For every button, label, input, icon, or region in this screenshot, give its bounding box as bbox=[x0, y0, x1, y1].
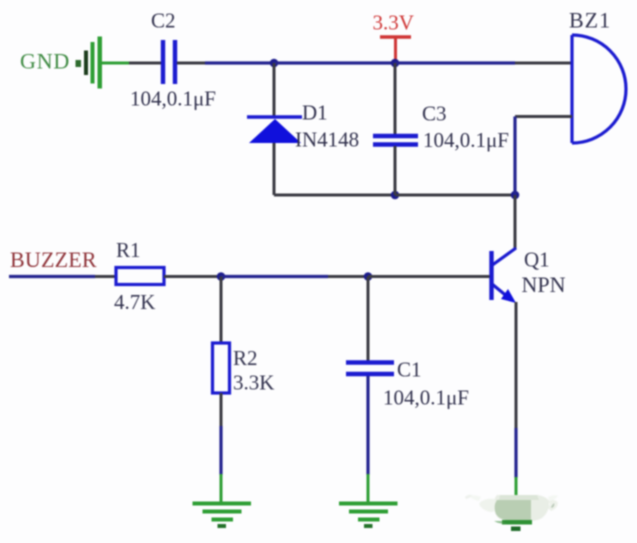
buzzer BZ1 bbox=[572, 35, 626, 143]
svg-text:C3: C3 bbox=[422, 102, 447, 126]
svg-text:104,0.1μF: 104,0.1μF bbox=[130, 87, 216, 111]
wire: bottom rail C3 to collector branch bbox=[395, 194, 515, 197]
wire: node D down to C1 bbox=[367, 277, 370, 362]
svg-text:R2: R2 bbox=[233, 346, 258, 370]
svg-text:GND: GND bbox=[20, 49, 70, 74]
wire: GND stub (green) bbox=[101, 62, 130, 65]
wire: R2 down to ground 1 bbox=[220, 393, 223, 503]
resistor R1 bbox=[116, 268, 164, 285]
wire: GND to C2 (dark) bbox=[129, 62, 161, 65]
svg-text:C2: C2 bbox=[151, 9, 176, 33]
wire: node B to buzzer top bbox=[395, 61, 572, 64]
wire: node B down to C3 bbox=[394, 63, 397, 134]
svg-text:Q1: Q1 bbox=[524, 248, 550, 272]
wire: buzzer bottom pin bbox=[515, 115, 572, 118]
capacitor C3 bbox=[373, 136, 418, 145]
node A junction dot bbox=[270, 59, 279, 68]
ground 3 (under Q1 emitter) bbox=[488, 502, 547, 532]
svg-text:IN4148: IN4148 bbox=[295, 128, 359, 152]
wire: C1 down to ground 2 bbox=[366, 376, 369, 503]
ground (power ground symbol, rotated, left) bbox=[76, 37, 103, 89]
svg-text:3.3V: 3.3V bbox=[373, 11, 414, 35]
node D junction dot (C1 tap) bbox=[364, 272, 373, 281]
node C3-bottom junction dot bbox=[391, 191, 400, 200]
ground 2 (under C1) bbox=[339, 502, 398, 529]
svg-text:D1: D1 bbox=[302, 101, 328, 125]
wire: bottom rail D1 to C3 bbox=[274, 194, 395, 197]
wire: node A to node B bbox=[274, 61, 395, 64]
capacitor C1 bbox=[346, 363, 394, 375]
capacitor C2 bbox=[163, 40, 175, 84]
resistor R2 bbox=[213, 343, 230, 393]
svg-text:3.3K: 3.3K bbox=[233, 371, 274, 395]
wire: buzzer bottom down to bottom rail bbox=[513, 117, 516, 196]
ground 1 (under R2) bbox=[193, 502, 252, 529]
svg-text:C1: C1 bbox=[397, 358, 422, 382]
wire: BUZZER lead to R1 bbox=[9, 275, 116, 278]
wire: D1 anode down to bottom rail bbox=[273, 143, 276, 195]
wire: bottom rail down to Q1 collector bbox=[514, 195, 517, 249]
node C junction dot bbox=[217, 272, 226, 281]
svg-text:BUZZER: BUZZER bbox=[10, 247, 97, 272]
wire: Q1 emitter down to ground 3 bbox=[515, 302, 518, 500]
diode D1 bbox=[247, 117, 302, 143]
svg-text:4.7K: 4.7K bbox=[114, 290, 155, 314]
wire: C2 to node A bbox=[177, 62, 274, 65]
wire: R1 to node C bbox=[164, 275, 221, 278]
svg-text:R1: R1 bbox=[116, 238, 141, 262]
svg-text:104,0.1μF: 104,0.1μF bbox=[383, 386, 469, 410]
wire: node C down to R2 bbox=[220, 277, 223, 344]
svg-text:BZ1: BZ1 bbox=[569, 8, 611, 33]
wire: C3 to bottom rail bbox=[394, 146, 397, 195]
svg-text:104,0.1μF: 104,0.1μF bbox=[423, 128, 509, 152]
svg-text:NPN: NPN bbox=[522, 272, 566, 297]
node B junction dot (3.3V node) bbox=[391, 59, 400, 68]
wire: D1 branch vertical (node A down) bbox=[273, 63, 276, 117]
wire: node D to Q1 base bbox=[368, 275, 490, 278]
power 3.3V symbol bbox=[373, 11, 414, 62]
transistor Q1 bbox=[491, 248, 516, 303]
watermark teapot blob over ground 3 bbox=[465, 495, 558, 525]
node collector-branch junction dot bbox=[511, 191, 520, 200]
wire: node C to node D bbox=[221, 275, 368, 278]
